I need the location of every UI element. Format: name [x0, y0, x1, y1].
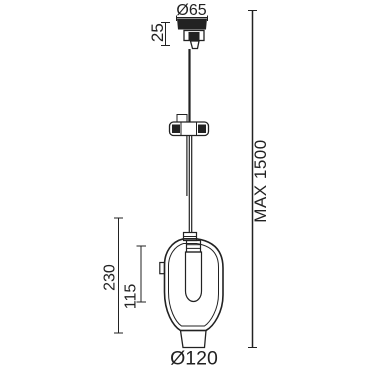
svg-text:25: 25: [148, 23, 167, 42]
svg-text:Ø120: Ø120: [170, 348, 218, 370]
svg-text:230: 230: [102, 264, 119, 291]
svg-text:MAX 1500: MAX 1500: [251, 139, 270, 222]
svg-text:Ø65: Ø65: [176, 2, 206, 19]
svg-text:115: 115: [123, 284, 140, 310]
